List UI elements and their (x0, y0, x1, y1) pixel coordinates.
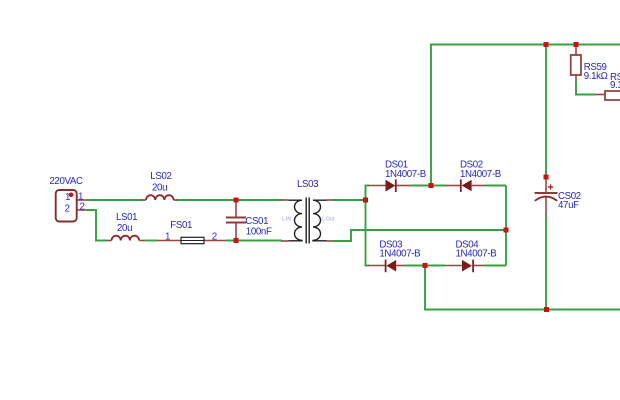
svg-text:1N4007-B: 1N4007-B (385, 169, 426, 180)
svg-text:1N4007-B: 1N4007-B (379, 249, 420, 260)
svg-text:1N4007-B: 1N4007-B (456, 249, 497, 260)
svg-text:100nF: 100nF (246, 226, 272, 237)
svg-text:2: 2 (65, 204, 70, 215)
svg-text:LS02: LS02 (150, 171, 171, 182)
svg-text:20u: 20u (117, 223, 132, 234)
svg-text:220VAC: 220VAC (49, 176, 83, 187)
svg-text:CS01: CS01 (245, 216, 268, 227)
svg-text:20u: 20u (152, 182, 167, 193)
svg-text:2: 2 (80, 201, 85, 212)
svg-text:1N4007-B: 1N4007-B (460, 169, 501, 180)
svg-text:L-IN: L-IN (282, 217, 292, 223)
svg-text:1: 1 (65, 192, 70, 203)
svg-text:2: 2 (212, 231, 217, 242)
svg-text:47uF: 47uF (558, 200, 579, 211)
svg-text:LS01: LS01 (116, 212, 137, 223)
svg-text:LS03: LS03 (297, 179, 318, 190)
svg-text:1: 1 (165, 231, 170, 242)
svg-text:9.1kΩ: 9.1kΩ (584, 71, 608, 82)
svg-text:9.1kΩ: 9.1kΩ (610, 80, 620, 91)
svg-text:FS01: FS01 (170, 220, 192, 231)
svg-text:L-Out: L-Out (322, 217, 335, 223)
